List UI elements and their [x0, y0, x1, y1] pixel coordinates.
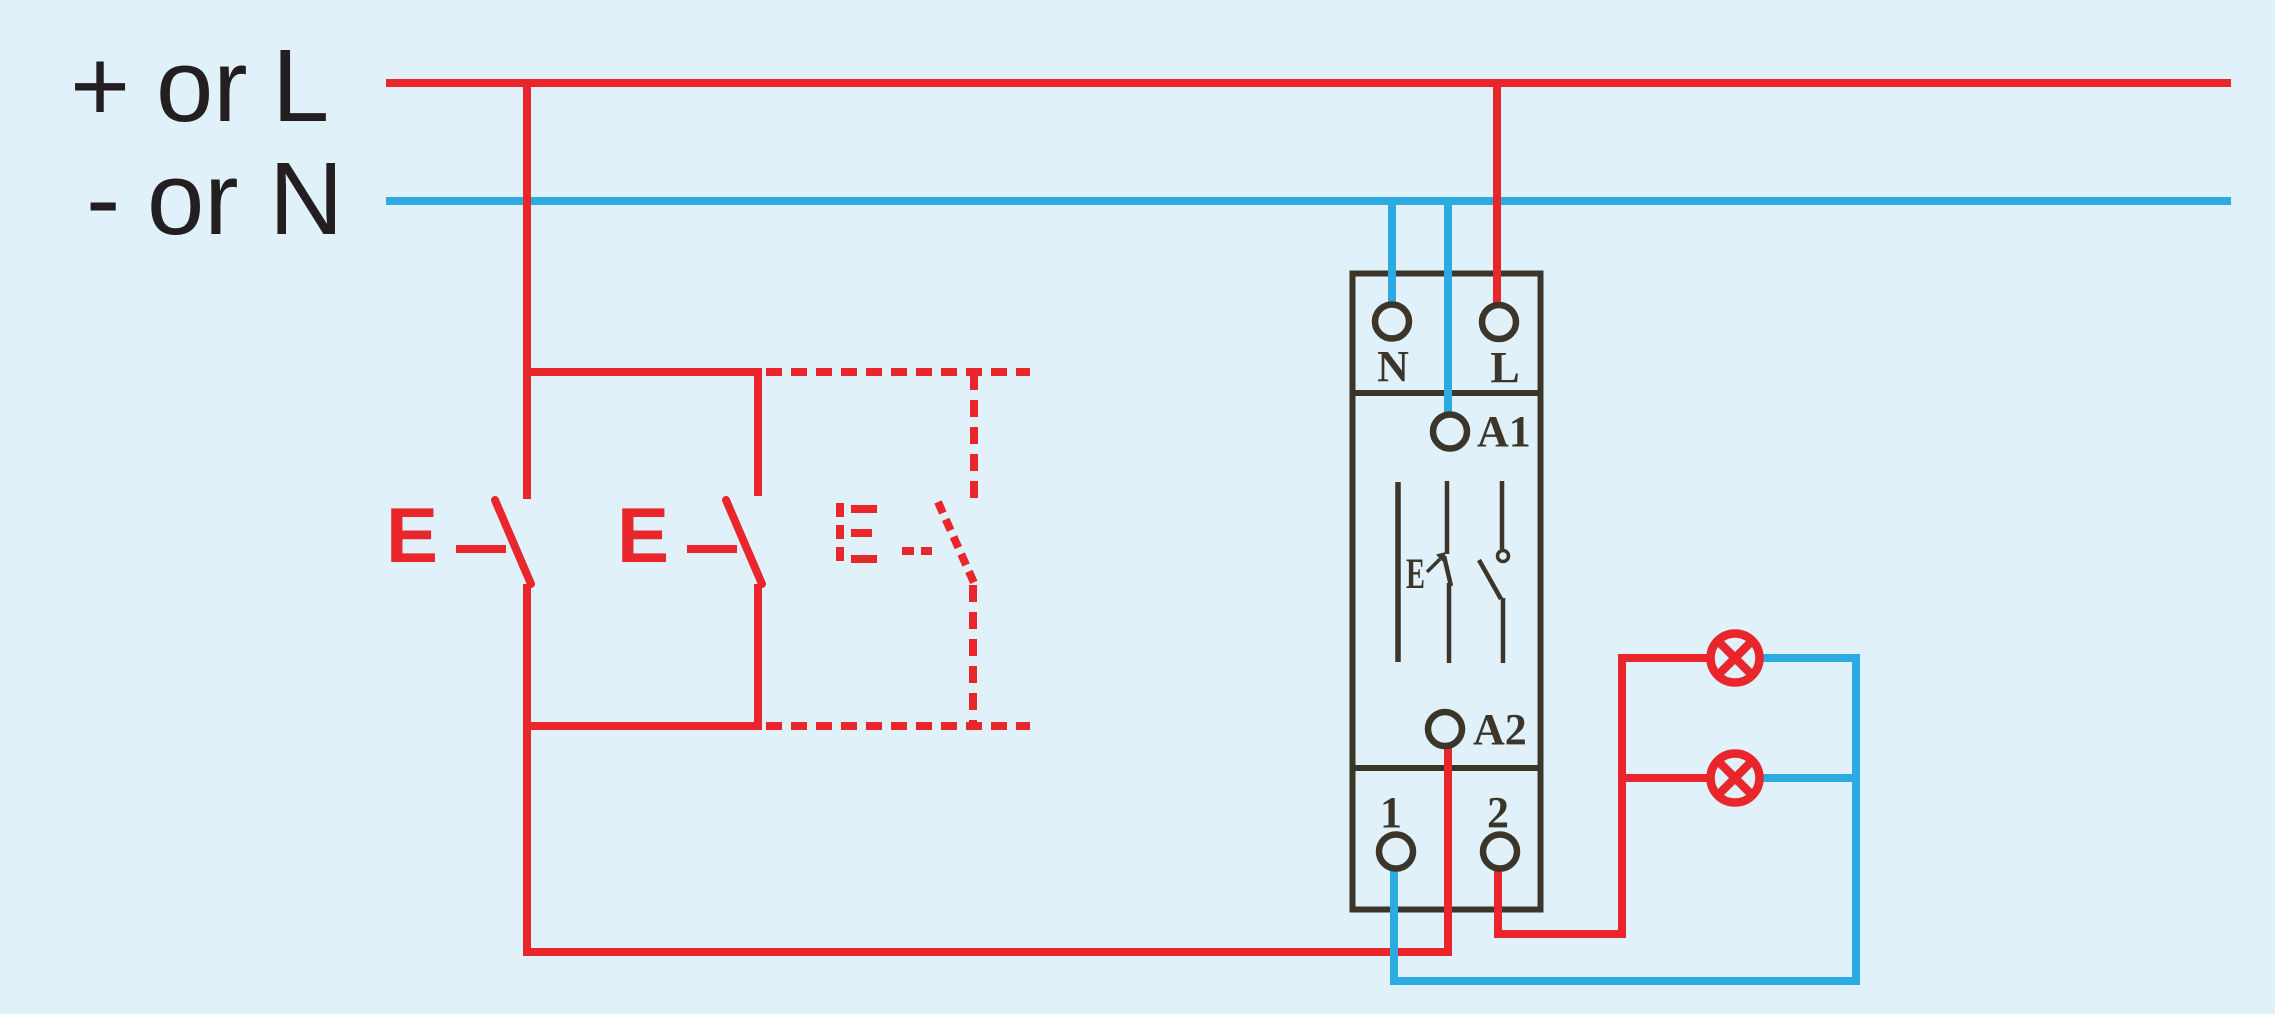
svg-text:A1: A1	[1477, 407, 1531, 456]
svg-text:A2: A2	[1473, 705, 1527, 754]
bus L (+ or L supply line)	[386, 79, 2231, 87]
wire: blue drop to terminal A1	[1444, 201, 1452, 415]
svg-text:or: or	[147, 141, 239, 256]
wire: blue return of lamp H2	[1757, 774, 1856, 782]
svg-text:E: E	[617, 491, 669, 579]
pushbutton E3 (optional, dashed)	[840, 373, 975, 726]
svg-text:L: L	[1490, 343, 1519, 392]
pushbutton E2	[687, 372, 762, 726]
lamp H1	[1711, 634, 1760, 683]
svg-text:N: N	[1377, 342, 1409, 391]
wire: top branch dashed extension	[766, 368, 1030, 376]
svg-text:N: N	[269, 141, 343, 256]
relay module U1 body	[1352, 274, 1541, 910]
pushbutton E1	[456, 500, 531, 584]
wire: feed drop from bus L to pushbuttons	[523, 83, 531, 499]
wire: blue drop to terminal N	[1388, 201, 1396, 305]
wire: terminal 2 to lamps feed	[1498, 658, 1713, 934]
svg-text:-: -	[86, 141, 120, 256]
terminal A1	[1433, 415, 1467, 449]
wire: top branch (solid)	[527, 368, 762, 376]
svg-text:E: E	[386, 491, 438, 579]
wire: terminal 1 blue return to lamps	[1394, 658, 1856, 981]
lamp H2	[1711, 754, 1760, 803]
label "+ or L"	[70, 28, 329, 143]
wire: red drop from bus L to terminal L	[1493, 83, 1501, 306]
wire: pushbutton return down to A2 run	[527, 584, 1448, 952]
svg-text:1: 1	[1380, 788, 1402, 837]
wire: bottom branch dashed extension	[766, 722, 1030, 730]
svg-text:E: E	[1406, 551, 1425, 598]
wire: bottom branch (solid)	[527, 722, 762, 730]
terminal A2	[1428, 712, 1462, 746]
internal contact diagram of U1	[1398, 481, 1509, 663]
terminal 2	[1483, 835, 1517, 869]
terminal 1	[1379, 835, 1413, 869]
bus N (- or N supply line)	[386, 197, 2231, 205]
terminal L	[1482, 305, 1516, 339]
label "- or N"	[86, 141, 343, 256]
svg-text:or: or	[156, 28, 248, 143]
wire: red branch to lamp H2	[1622, 774, 1713, 782]
svg-text:+: +	[70, 28, 130, 143]
svg-text:2: 2	[1487, 788, 1509, 837]
svg-text:L: L	[272, 28, 329, 143]
terminal N	[1375, 305, 1409, 339]
